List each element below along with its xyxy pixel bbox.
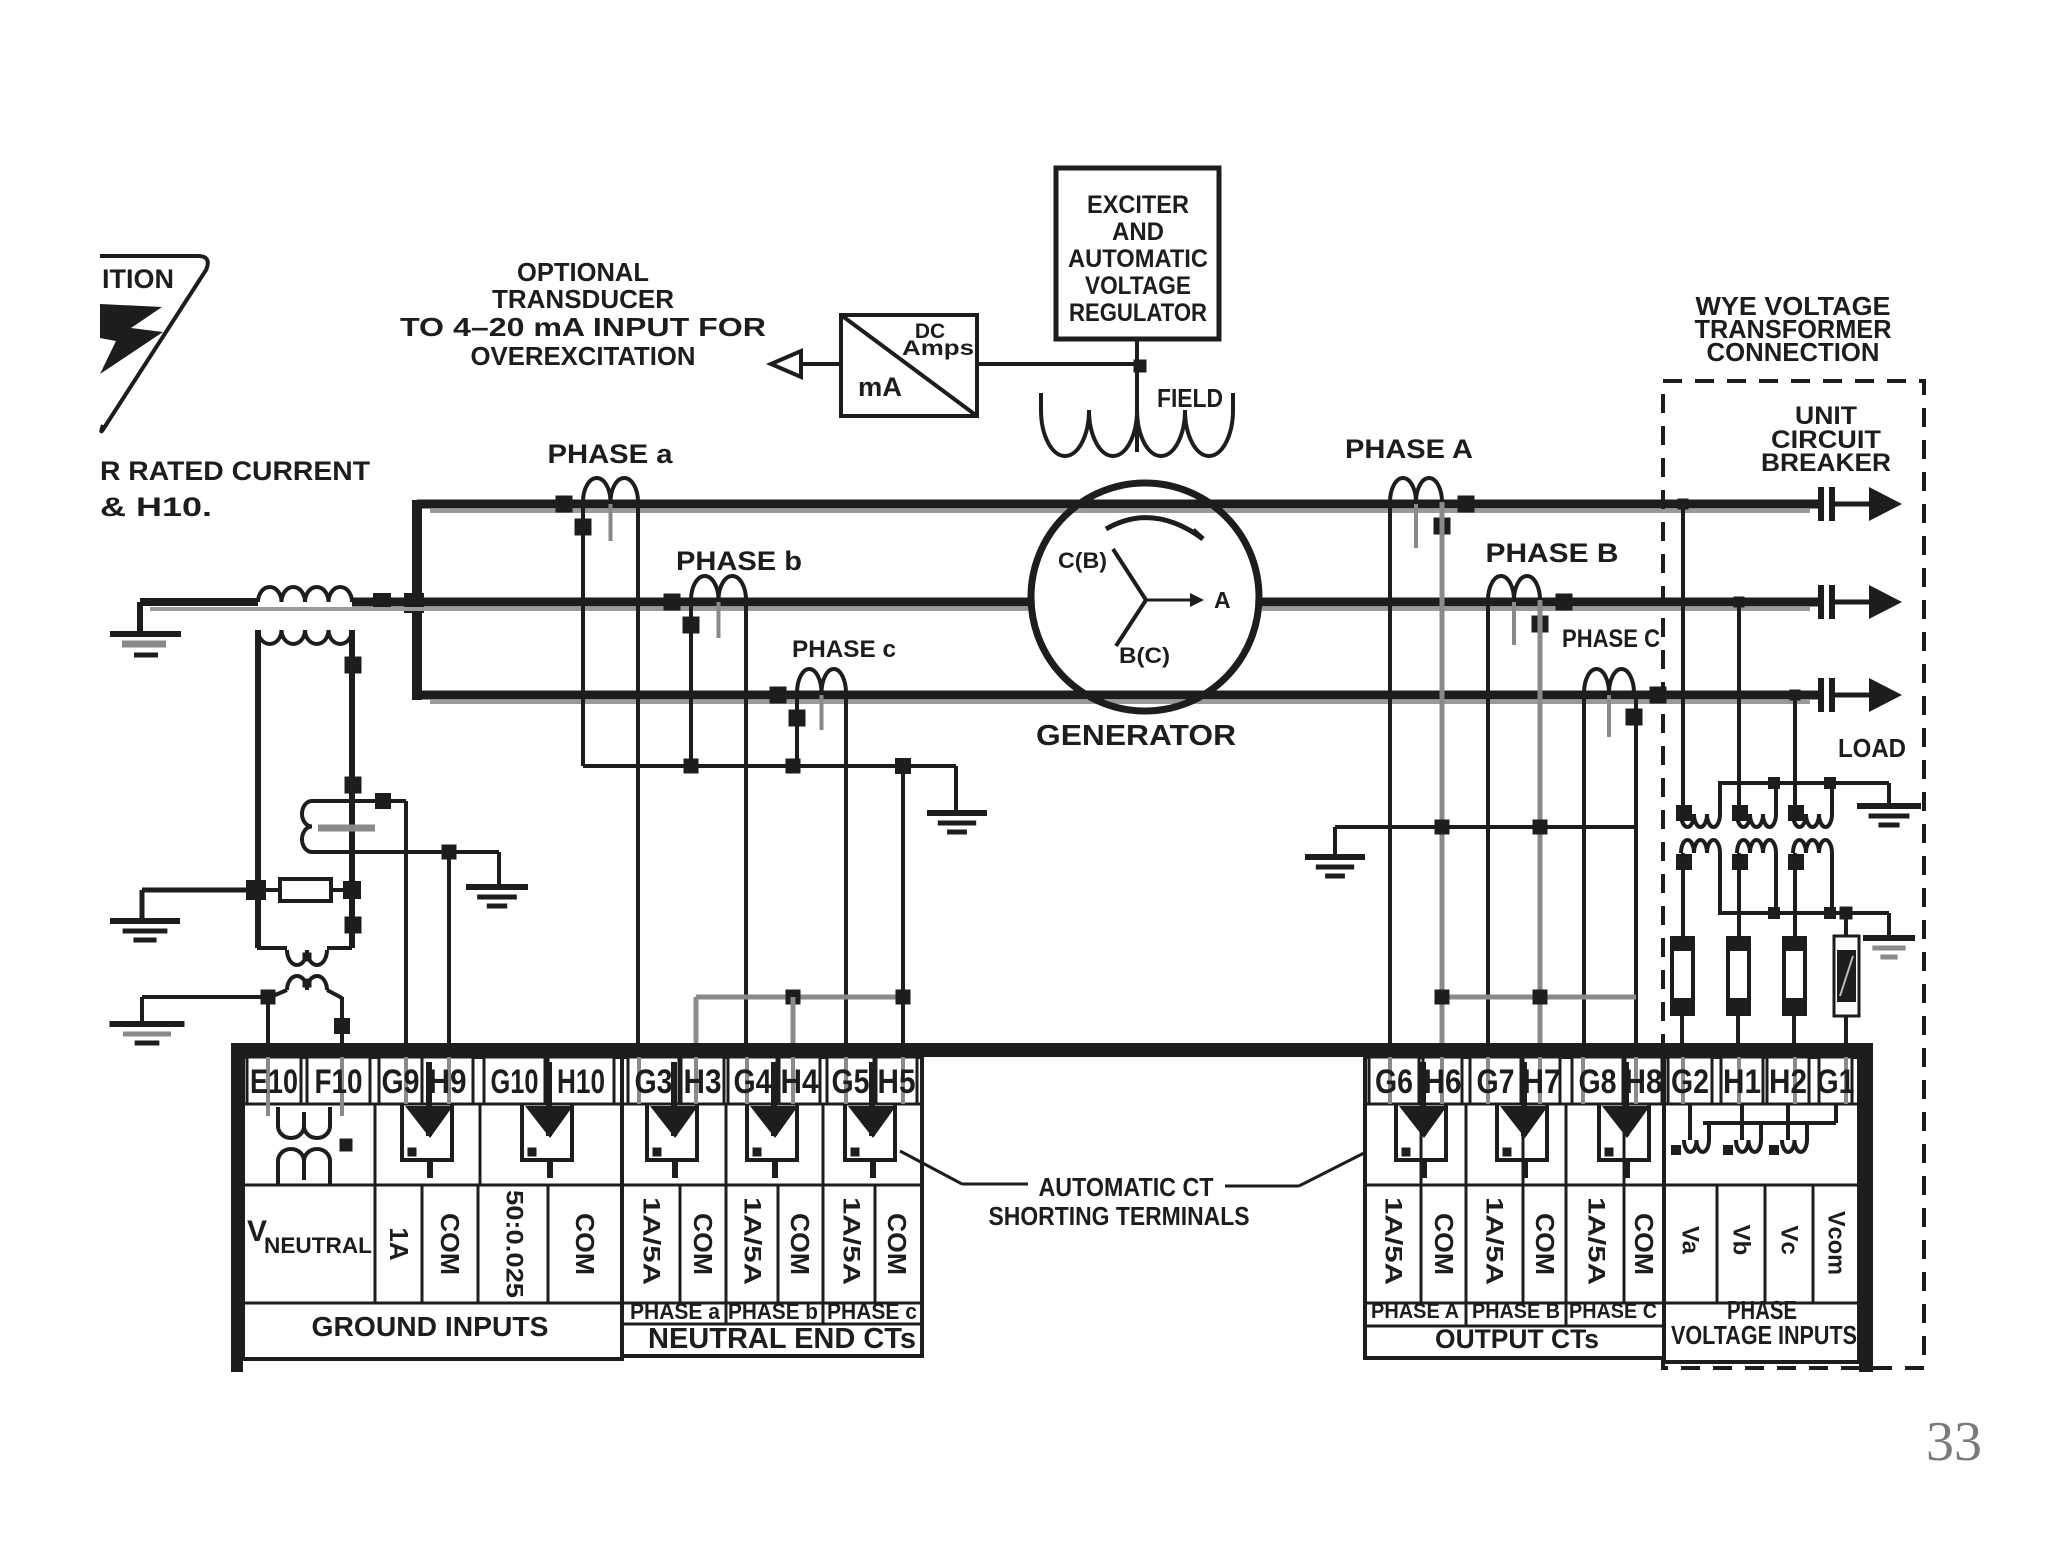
svg-text:R RATED CURRENT: R RATED CURRENT	[100, 456, 371, 486]
svg-text:PHASE B: PHASE B	[1472, 1300, 1560, 1323]
svg-text:1A/5A: 1A/5A	[1481, 1197, 1508, 1285]
svg-text:H8: H8	[1625, 1063, 1663, 1101]
svg-text:Vc: Vc	[1776, 1225, 1803, 1254]
svg-text:PHASE b: PHASE b	[728, 1299, 818, 1324]
svg-text:COM: COM	[785, 1213, 815, 1275]
svg-text:COM: COM	[688, 1213, 718, 1275]
svg-text:COM: COM	[1629, 1213, 1659, 1275]
svg-text:C(B): C(B)	[1058, 548, 1107, 573]
svg-text:PHASE a: PHASE a	[548, 439, 674, 469]
svg-text:AUTOMATIC CT: AUTOMATIC CT	[1039, 1172, 1214, 1202]
svg-text:GROUND INPUTS: GROUND INPUTS	[312, 1311, 549, 1342]
svg-text:1A/5A: 1A/5A	[638, 1197, 665, 1285]
svg-text:1A: 1A	[384, 1227, 414, 1260]
svg-text:1A/5A: 1A/5A	[1380, 1197, 1407, 1285]
svg-text:Amps: Amps	[902, 337, 974, 360]
svg-text:PHASE c: PHASE c	[827, 1299, 917, 1324]
svg-text:H6: H6	[1424, 1063, 1462, 1101]
svg-text:A: A	[1214, 587, 1231, 613]
svg-text:G3: G3	[635, 1063, 673, 1101]
svg-text:H9: H9	[429, 1063, 467, 1101]
svg-text:F10: F10	[315, 1063, 363, 1101]
svg-text:NEUTRAL: NEUTRAL	[264, 1233, 372, 1258]
svg-text:EXCITER: EXCITER	[1087, 191, 1189, 219]
svg-text:OVEREXCITATION: OVEREXCITATION	[471, 341, 696, 371]
svg-text:BREAKER: BREAKER	[1761, 449, 1891, 477]
svg-text:COM: COM	[1429, 1213, 1459, 1275]
svg-text:1A/5A: 1A/5A	[739, 1197, 766, 1285]
svg-text:H3: H3	[684, 1063, 722, 1101]
svg-text:1A/5A: 1A/5A	[838, 1197, 865, 1285]
svg-text:H7: H7	[1523, 1063, 1561, 1101]
svg-text:G9: G9	[382, 1063, 420, 1101]
svg-text:CONNECTION: CONNECTION	[1707, 337, 1880, 367]
svg-text:1A/5A: 1A/5A	[1583, 1197, 1610, 1285]
svg-text:TO 4–20 mA INPUT FOR: TO 4–20 mA INPUT FOR	[400, 312, 766, 342]
svg-text:FIELD: FIELD	[1157, 383, 1223, 413]
svg-text:COM: COM	[1530, 1213, 1560, 1275]
svg-text:PHASE C: PHASE C	[1562, 625, 1660, 653]
svg-text:LOAD: LOAD	[1838, 733, 1906, 763]
svg-text:ITION: ITION	[102, 264, 174, 294]
svg-text:G10: G10	[491, 1063, 539, 1101]
svg-text:G5: G5	[832, 1063, 870, 1101]
svg-text:G4: G4	[734, 1063, 772, 1101]
svg-text:E10: E10	[250, 1063, 298, 1101]
svg-text:G8: G8	[1579, 1063, 1617, 1101]
svg-text:AND: AND	[1112, 218, 1164, 246]
svg-text:H2: H2	[1769, 1063, 1807, 1101]
svg-text:OPTIONAL: OPTIONAL	[517, 257, 649, 287]
svg-text:COM: COM	[882, 1213, 912, 1275]
svg-text:VOLTAGE: VOLTAGE	[1085, 272, 1191, 300]
svg-text:H10: H10	[557, 1063, 605, 1101]
svg-text:G6: G6	[1375, 1063, 1413, 1101]
svg-text:GENERATOR: GENERATOR	[1036, 720, 1236, 752]
svg-text:H4: H4	[781, 1063, 819, 1101]
svg-text:VOLTAGE INPUTS: VOLTAGE INPUTS	[1671, 1320, 1857, 1350]
svg-text:PHASE C: PHASE C	[1569, 1300, 1657, 1323]
svg-text:OUTPUT CTs: OUTPUT CTs	[1435, 1324, 1599, 1354]
svg-text:G2: G2	[1671, 1063, 1709, 1101]
svg-text:PHASE B: PHASE B	[1486, 538, 1619, 568]
svg-text:PHASE A: PHASE A	[1345, 434, 1473, 464]
svg-text:REGULATOR: REGULATOR	[1069, 299, 1207, 327]
svg-text:PHASE c: PHASE c	[792, 636, 896, 663]
svg-text:NEUTRAL END CTs: NEUTRAL END CTs	[648, 1323, 916, 1355]
svg-text:& H10.: & H10.	[100, 492, 212, 522]
svg-text:AUTOMATIC: AUTOMATIC	[1068, 245, 1208, 273]
svg-text:G7: G7	[1477, 1063, 1515, 1101]
svg-text:Va: Va	[1677, 1226, 1704, 1255]
svg-text:H1: H1	[1723, 1063, 1761, 1101]
svg-text:H5: H5	[878, 1063, 916, 1101]
svg-text:COM: COM	[570, 1213, 600, 1275]
svg-text:COM: COM	[435, 1213, 465, 1275]
svg-text:50:0.025: 50:0.025	[501, 1190, 528, 1298]
svg-text:Vcom: Vcom	[1823, 1211, 1850, 1275]
svg-text:PHASE A: PHASE A	[1371, 1300, 1459, 1323]
svg-text:Vb: Vb	[1728, 1225, 1755, 1256]
svg-text:PHASE a: PHASE a	[630, 1299, 721, 1324]
svg-text:SHORTING TERMINALS: SHORTING TERMINALS	[989, 1201, 1250, 1231]
svg-text:G1: G1	[1817, 1063, 1855, 1101]
svg-text:mA: mA	[858, 372, 902, 402]
svg-text:33: 33	[1926, 1411, 1982, 1473]
svg-text:PHASE b: PHASE b	[676, 546, 802, 576]
svg-text:B(C): B(C)	[1119, 643, 1170, 668]
svg-text:TRANSDUCER: TRANSDUCER	[492, 284, 674, 314]
